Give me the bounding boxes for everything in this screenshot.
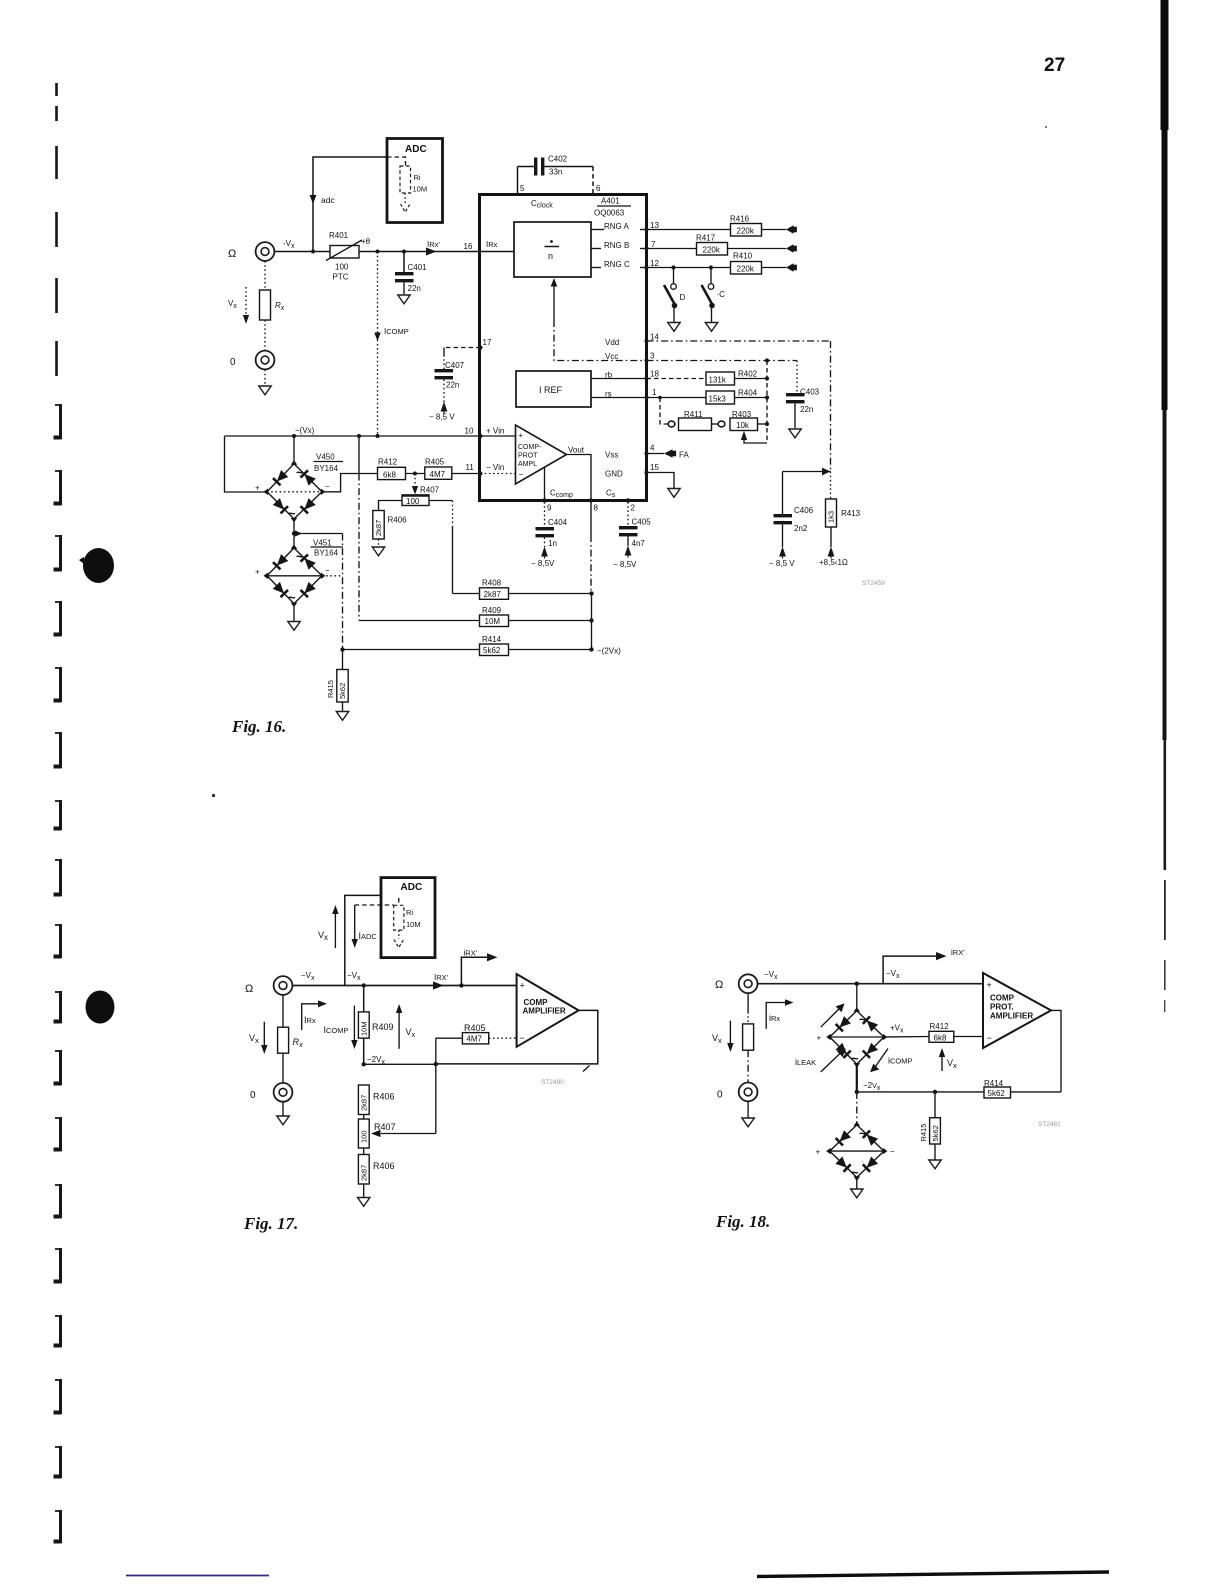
wire: V450 top feed (293, 436, 295, 464)
svg-text:ST2480: ST2480 (541, 1079, 564, 1086)
arrow IRx' current flow (426, 248, 437, 256)
svg-text:R406: R406 (373, 1092, 395, 1102)
wire: Vout to pin 8 (567, 455, 592, 501)
svg-text:BY164: BY164 (314, 549, 339, 558)
svg-text:R408: R408 (482, 579, 502, 588)
svg-text:100: 100 (406, 497, 420, 506)
capacitor C402 (518, 166, 535, 168)
svg-text:33n: 33n (549, 168, 562, 177)
wire: V450 out to R412 (322, 474, 378, 492)
svg-text:−: − (325, 482, 330, 491)
divider block (divide by n) (514, 222, 591, 277)
ground under C401 (398, 295, 410, 304)
svg-text:iCOMP: iCOMP (888, 1056, 913, 1066)
svg-text:AMPL: AMPL (518, 461, 537, 468)
ohm input terminal (274, 976, 293, 995)
svg-text:−(2Vx): −(2Vx) (597, 647, 621, 656)
wire: iRX' branch (461, 957, 487, 985)
tick on feedback (583, 1066, 590, 1072)
pin 10 +Vin (479, 434, 483, 438)
wire pin3 rail (647, 360, 798, 362)
wire rng C (647, 267, 732, 269)
svg-text:RNG C: RNG C (604, 260, 630, 269)
svg-text:1n: 1n (548, 539, 557, 548)
svg-text:~: ~ (859, 1012, 867, 1027)
svg-text:R415: R415 (326, 680, 335, 698)
svg-text:−: − (519, 470, 524, 479)
wire: R401 to IC pin 16 (359, 251, 481, 253)
svg-text:IRX': IRX' (434, 973, 449, 982)
pin 18 (644, 376, 648, 380)
wire rng A (647, 229, 732, 231)
annotation iLEAK arrows (821, 1009, 839, 1027)
ground under 0 terminal (282, 1102, 284, 1116)
svg-text:− Vin: − Vin (486, 463, 504, 472)
svg-text:5: 5 (520, 184, 525, 193)
svg-text:−: − (520, 1033, 525, 1043)
svg-text:R407: R407 (374, 1122, 396, 1132)
svg-text:PROT.: PROT. (990, 1003, 1014, 1012)
svg-text:BY164: BY164 (314, 464, 339, 473)
svg-text:16: 16 (464, 242, 473, 251)
wire: Vx sense loop to ADC (345, 895, 381, 985)
wire: -2Vx row to feedback (857, 1091, 984, 1093)
svg-text:17: 17 (483, 338, 492, 347)
ground under bridge B (856, 1177, 858, 1188)
wire R412-R405 (406, 473, 425, 475)
svg-text:220k: 220k (737, 265, 755, 274)
svg-text:~: ~ (859, 1126, 867, 1141)
svg-text:Vcc: Vcc (605, 352, 618, 361)
svg-text:6k8: 6k8 (934, 1033, 947, 1042)
svg-text:+: + (987, 980, 992, 990)
svg-text:D: D (680, 293, 686, 302)
resistor R415 5k62 vertical (342, 650, 344, 670)
svg-text:+: + (816, 1148, 821, 1157)
svg-text:iRx: iRx (769, 1013, 780, 1023)
svg-text:R409: R409 (372, 1022, 394, 1032)
svg-text:7: 7 (651, 240, 656, 249)
0 input terminal (739, 1083, 758, 1102)
ground under R415 (336, 712, 348, 721)
svg-text:n: n (548, 251, 553, 261)
wire: tap into R407 (381, 1133, 436, 1135)
svg-text:Ω: Ω (228, 248, 236, 260)
svg-text:+ Vin: + Vin (486, 427, 504, 436)
svg-text:FA: FA (679, 451, 689, 460)
op-amp COMP PROT AMPLIFIER (983, 973, 1051, 1048)
svg-text:R405: R405 (425, 458, 445, 467)
svg-text:15k3: 15k3 (709, 395, 727, 404)
svg-text:Ri: Ri (414, 173, 421, 182)
svg-text:~: ~ (296, 549, 304, 564)
svg-text:~: ~ (288, 506, 296, 521)
arrow ICOMP current down (374, 333, 381, 342)
wire R407 right tap down (429, 500, 453, 502)
svg-text:2: 2 (631, 504, 636, 513)
scanned page right edge bar (1161, 0, 1169, 130)
pin 17 (479, 346, 483, 350)
pin 9 (542, 498, 546, 502)
op-amp COMP AMPLIFIER (517, 974, 579, 1047)
annotation Vx right of R409 (398, 1012, 400, 1049)
wire: bridge A to -2Vx node (856, 1064, 858, 1092)
wire: amp comp pin to pin 9 (544, 468, 546, 501)
wire: rail to bridge A (856, 984, 858, 1011)
svg-text:~: ~ (296, 465, 304, 480)
wire: -2Vx to bridge B (856, 1092, 858, 1125)
wire: main -Vx rail (293, 985, 517, 987)
pin 5 (517, 167, 519, 195)
pin 12 (644, 265, 648, 269)
svg-text:PROT: PROT (518, 453, 538, 460)
wire rb row (647, 378, 707, 380)
wire: pin16 to divider (481, 251, 515, 253)
ground under R406 (372, 547, 384, 556)
svg-text:PTC: PTC (333, 273, 349, 282)
svg-text:Vss: Vss (605, 451, 618, 460)
svg-text:C401: C401 (408, 263, 428, 272)
svg-text:C405: C405 (632, 518, 652, 527)
svg-text:RNG B: RNG B (604, 241, 629, 250)
svg-text:13: 13 (650, 221, 659, 230)
punch hole dot lower (86, 991, 115, 1024)
svg-text:C404: C404 (548, 518, 568, 527)
svg-text:ADC: ADC (401, 882, 423, 893)
pin 13 (644, 227, 648, 231)
0 input terminal (256, 351, 275, 370)
IC A401 OQ0063 outline (480, 195, 647, 501)
svg-text:GND: GND (605, 470, 623, 479)
svg-text:12: 12 (650, 259, 659, 268)
svg-text:R412: R412 (930, 1022, 950, 1031)
annotation Vx under R412 (941, 1056, 943, 1071)
svg-text:Fig. 17.: Fig. 17. (243, 1214, 298, 1233)
pin 15 GND (644, 470, 648, 474)
ADC box (381, 878, 435, 958)
resistor R406 2k87 lower (363, 1148, 365, 1155)
svg-text:R412: R412 (378, 458, 398, 467)
resistor Rx (747, 993, 749, 1012)
pin 2 (626, 498, 630, 502)
svg-text:0: 0 (230, 357, 236, 368)
wire: -2Vx to feedback junction (364, 1063, 436, 1065)
annotation iCOMP arrow (876, 1049, 889, 1067)
svg-text:+8,5‹1Ω: +8,5‹1Ω (819, 558, 848, 567)
junction C401 tap (402, 250, 406, 254)
svg-text:0: 0 (717, 1090, 723, 1101)
svg-text:C406: C406 (794, 506, 814, 515)
wires divider to RNG pins (591, 229, 604, 231)
wire R407 left to R406 (379, 501, 403, 511)
svg-text:+: + (817, 1034, 822, 1043)
svg-text:Vout: Vout (568, 446, 585, 455)
svg-text:−: − (987, 1033, 992, 1043)
svg-text:Ri: Ri (406, 908, 413, 917)
resistor Rx (device under test) (264, 261, 266, 290)
svg-text:ICOMP: ICOMP (324, 1025, 349, 1035)
pin 4 Vss / FA (644, 451, 648, 455)
svg-text:C402: C402 (548, 155, 568, 164)
svg-text:rb: rb (605, 371, 613, 380)
wire Vdd rail (647, 340, 831, 342)
diode bridge V451 BY164 (293, 534, 295, 549)
svg-text:9: 9 (547, 504, 552, 513)
wire jog pin1 to R411 row (660, 398, 668, 425)
svg-text:1k3: 1k3 (827, 511, 836, 523)
resistor Ri inside ADC (398, 898, 400, 905)
svg-text:+θ: +θ (361, 237, 371, 246)
svg-text:1: 1 (652, 388, 657, 397)
svg-text:100: 100 (335, 263, 349, 272)
arrow FA (664, 449, 673, 458)
svg-text:14: 14 (650, 333, 659, 342)
ground pin 15 (668, 489, 680, 498)
svg-text:R401: R401 (329, 231, 349, 240)
junction to amp (459, 983, 463, 987)
annotation IRx arrow (302, 1004, 319, 1030)
svg-text:R414: R414 (482, 635, 502, 644)
bottom right black rule (757, 1572, 1109, 1577)
svg-text:IADC: IADC (359, 931, 378, 941)
svg-text:131k: 131k (709, 376, 727, 385)
svg-text:4: 4 (650, 444, 655, 453)
svg-text:22n: 22n (408, 284, 421, 293)
ground under C403 (789, 429, 801, 438)
resistor Ri (dashed, internal) (387, 157, 406, 166)
supply -8,5V under C407 (441, 402, 448, 414)
bottom blue rule (126, 1575, 269, 1577)
svg-text:·C: ·C (717, 290, 726, 299)
svg-text:10: 10 (465, 427, 474, 436)
I REF block (516, 371, 591, 407)
svg-text:iLEAK: iLEAK (795, 1057, 816, 1067)
svg-text:~: ~ (851, 1051, 859, 1066)
svg-text:R402: R402 (738, 370, 758, 379)
svg-text:2k87: 2k87 (360, 1095, 369, 1111)
node -2Vx (362, 1062, 366, 1066)
wire: iRX' branch (883, 956, 936, 984)
svg-text:4M7: 4M7 (430, 470, 446, 479)
svg-text:AMPLIFIER: AMPLIFIER (523, 1007, 566, 1016)
svg-text:+: + (519, 431, 524, 440)
svg-text:R407: R407 (420, 486, 440, 495)
ground under switch D (668, 323, 680, 332)
ground under 0 terminal (747, 1101, 749, 1117)
svg-text:+: + (255, 484, 260, 493)
svg-text:R406: R406 (388, 516, 408, 525)
resistor R404 15k3 (706, 391, 735, 404)
ground under switch C (705, 323, 717, 332)
diode bridge A (leak) (830, 1011, 884, 1064)
svg-text:22n: 22n (800, 405, 813, 414)
diode bridge V450 BY164 (267, 464, 322, 519)
svg-text:−: − (890, 1147, 895, 1156)
ground under 0 terminal (264, 370, 266, 386)
wire: divider control from pin 3 (551, 278, 558, 287)
junction divider tap (362, 983, 366, 987)
svg-text:iRX': iRX' (464, 949, 478, 958)
svg-text:11: 11 (466, 463, 475, 472)
svg-text:A401: A401 (601, 197, 620, 206)
svg-text:2n2: 2n2 (794, 524, 808, 533)
svg-text:− 8,5V: − 8,5V (531, 559, 555, 568)
svg-text:I REF: I REF (539, 385, 563, 395)
svg-text:AMPLIFIER: AMPLIFIER (990, 1012, 1033, 1021)
svg-text:R416: R416 (730, 215, 750, 224)
svg-text:R410: R410 (733, 252, 753, 261)
svg-text:4n7: 4n7 (632, 539, 646, 548)
capacitor C407 on pin 17 (444, 347, 481, 349)
pin 6 (592, 167, 594, 195)
capacitor C401 (403, 252, 405, 273)
wire: ICOMP dashed branch down (377, 252, 379, 437)
svg-text:ADC: ADC (405, 144, 427, 155)
svg-text:IRx: IRx (486, 240, 498, 249)
svg-text:15: 15 (650, 463, 659, 472)
svg-text:6: 6 (596, 184, 601, 193)
svg-text:+: + (255, 568, 260, 577)
pin 14 Vdd (644, 339, 648, 343)
capacitor C404 (544, 502, 546, 527)
resistor Rx (282, 995, 284, 1027)
svg-text:10k: 10k (736, 421, 750, 430)
svg-text:−(Vx): −(Vx) (295, 426, 315, 435)
svg-text:Ω: Ω (245, 983, 253, 995)
wire rs row (647, 397, 707, 399)
ground under V451 (293, 604, 295, 621)
wire: bridge node to R414/R415 rail (294, 533, 343, 535)
svg-text:Vdd: Vdd (605, 338, 619, 347)
wire: adc branch up and right to ADC box (313, 157, 387, 252)
svg-text:R415: R415 (919, 1124, 928, 1142)
svg-text:Ω: Ω (715, 979, 723, 991)
svg-text:10M: 10M (406, 920, 421, 929)
annotation iRx (766, 1003, 786, 1029)
arrow rng B out (786, 244, 794, 253)
junction ICOMP tap (376, 250, 380, 254)
svg-text:~: ~ (288, 590, 296, 605)
svg-text:2k87: 2k87 (360, 1165, 369, 1181)
ohm input terminal (739, 974, 758, 993)
svg-text:RNG A: RNG A (604, 222, 630, 231)
svg-text:rs: rs (605, 390, 612, 399)
svg-text:+: + (520, 981, 525, 991)
capacitor C405 (627, 502, 629, 526)
ground under R415 (929, 1160, 941, 1169)
svg-text:220k: 220k (703, 246, 721, 255)
pin 3 (644, 358, 648, 362)
wire: ohm terminal to R401 (275, 251, 331, 253)
svg-text:V450: V450 (316, 453, 335, 462)
resistor R406 2k87 (358, 1085, 369, 1115)
svg-text:5k62: 5k62 (338, 683, 347, 699)
svg-text:4M7: 4M7 (466, 1035, 482, 1044)
svg-text:Fig. 16.: Fig. 16. (231, 717, 286, 736)
svg-text:ST2481: ST2481 (1038, 1121, 1061, 1128)
svg-text:10M: 10M (360, 1021, 369, 1036)
binder margin tick marks (left edge) (55, 83, 58, 376)
supply -8,5V under C406 (779, 547, 786, 559)
svg-text:Fig. 18.: Fig. 18. (715, 1212, 770, 1231)
svg-text:R406: R406 (373, 1161, 395, 1171)
resistor R407 100 trim tap (414, 474, 416, 487)
svg-text:R409: R409 (482, 606, 502, 615)
arrow Vx up (334, 913, 336, 948)
svg-text:V451: V451 (313, 539, 332, 548)
svg-text:3: 3 (650, 352, 655, 361)
supply +8,5 under R413 (828, 547, 835, 559)
svg-text:5k62: 5k62 (988, 1089, 1006, 1098)
svg-text:8: 8 (594, 504, 599, 513)
resistor R415 5k62 vertical (934, 1092, 936, 1118)
pin 1 (644, 395, 648, 399)
wire pin8 rail down (590, 501, 592, 536)
ohm input terminal (256, 242, 275, 261)
wire rng B (647, 248, 697, 250)
svg-text:C407: C407 (445, 361, 465, 370)
wires I REF to pins rb rs (591, 378, 647, 380)
svg-text:100: 100 (360, 1130, 369, 1143)
wire C406/R413 link row (783, 471, 831, 473)
svg-text:adc: adc (321, 195, 335, 205)
wire: main rail to amp (758, 983, 984, 985)
diode bridge B (830, 1125, 884, 1178)
svg-text:10M: 10M (485, 617, 501, 626)
junction adc tap (311, 250, 315, 254)
svg-text:10M: 10M (413, 185, 428, 194)
svg-text:R417: R417 (696, 234, 716, 243)
svg-text:~: ~ (851, 1165, 859, 1180)
svg-text:−: − (325, 566, 330, 575)
svg-text:18: 18 (650, 370, 659, 379)
svg-text:R413: R413 (841, 509, 861, 518)
arrow rng A out (786, 225, 794, 234)
0 input terminal (274, 1083, 293, 1102)
svg-text:ST2459: ST2459 (862, 580, 885, 587)
arrow IRX' on rail (433, 981, 444, 989)
svg-text:− 8,5 V: − 8,5 V (769, 559, 795, 568)
wire: feedback from output (436, 1010, 598, 1064)
svg-text:5k62: 5k62 (931, 1125, 940, 1141)
svg-text:OQ0063: OQ0063 (594, 209, 625, 218)
svg-text:2k87: 2k87 (484, 590, 502, 599)
resistor R409 10M vertical (363, 986, 365, 1012)
pin 7 (644, 246, 648, 250)
wire vertical rail x767 (766, 361, 768, 444)
svg-text:R405: R405 (464, 1023, 486, 1033)
svg-text:COMP-: COMP- (518, 444, 542, 451)
resistor R407 100 (363, 1115, 365, 1120)
arrow adc current down (310, 195, 317, 204)
stray ink speck (212, 794, 215, 797)
wire: feedback from amp output (1051, 1010, 1061, 1092)
ADC box (387, 139, 443, 223)
svg-text:2k87: 2k87 (374, 520, 383, 536)
svg-text:R404: R404 (738, 389, 758, 398)
trimmer wiper arrow R403 (741, 431, 747, 440)
svg-text:220k: 220k (737, 227, 755, 236)
svg-text:22n: 22n (446, 381, 459, 390)
capacitor C406 (782, 472, 784, 515)
resistor R413 1k3 (830, 472, 832, 500)
svg-text:iRX': iRX' (951, 948, 965, 957)
resistor R412 6k8 (884, 1036, 929, 1039)
resistor R406 2k87 vertical (373, 511, 384, 540)
wire IADC hook (355, 904, 394, 906)
ground under divider (358, 1198, 370, 1207)
svg-text:0: 0 (250, 1090, 256, 1101)
